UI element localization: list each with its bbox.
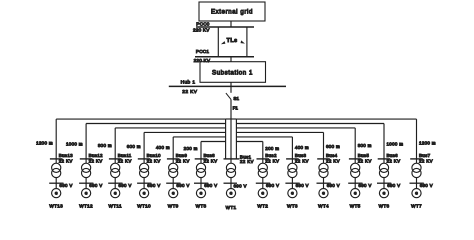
svg-text:690 V: 690 V [358, 183, 371, 188]
svg-text:Bus6: Bus6 [387, 153, 399, 158]
svg-text:WT5: WT5 [350, 204, 361, 209]
svg-text:22 KV: 22 KV [326, 159, 340, 164]
svg-text:WT4: WT4 [318, 204, 329, 209]
svg-text:S1: S1 [233, 96, 239, 101]
svg-text:690 V: 690 V [420, 183, 433, 188]
svg-text:690 V: 690 V [147, 183, 160, 188]
svg-text:WT2: WT2 [257, 204, 268, 209]
svg-text:690 V: 690 V [234, 184, 247, 189]
svg-text:Bus11: Bus11 [118, 153, 132, 158]
svg-text:690 V: 690 V [387, 183, 400, 188]
svg-text:22 KV: 22 KV [295, 159, 309, 164]
svg-text:22 KV: 22 KV [387, 159, 401, 164]
svg-text:G: G [322, 192, 325, 196]
svg-text:22 KV: 22 KV [204, 159, 218, 164]
svg-text:Hub 1: Hub 1 [181, 80, 196, 86]
svg-text:220 KV: 220 KV [193, 28, 210, 33]
svg-text:1200 m: 1200 m [419, 140, 436, 145]
svg-text:Bus13: Bus13 [59, 153, 73, 158]
svg-text:800 m: 800 m [358, 143, 372, 148]
svg-text:Bus4: Bus4 [326, 153, 338, 158]
svg-text:WT12: WT12 [79, 204, 93, 209]
svg-text:600 m: 600 m [127, 144, 141, 149]
svg-text:Bus2: Bus2 [265, 153, 277, 158]
svg-text:1200 m: 1200 m [36, 140, 53, 145]
svg-text:1000 m: 1000 m [66, 142, 83, 147]
svg-text:690 V: 690 V [176, 183, 189, 188]
svg-text:G: G [114, 192, 117, 196]
svg-text:22 KV: 22 KV [176, 159, 190, 164]
svg-text:WT7: WT7 [411, 204, 422, 209]
svg-text:WT9: WT9 [168, 204, 179, 209]
svg-text:WT8: WT8 [196, 204, 207, 209]
svg-text:TLs: TLs [227, 38, 238, 44]
svg-text:22 KV: 22 KV [59, 159, 73, 164]
svg-text:22 KV: 22 KV [419, 159, 433, 164]
svg-text:G: G [261, 192, 264, 196]
svg-text:WT6: WT6 [379, 204, 390, 209]
svg-text:600 m: 600 m [326, 144, 340, 149]
svg-text:22 KV: 22 KV [182, 89, 197, 95]
svg-text:G: G [85, 192, 88, 196]
svg-text:WT11: WT11 [109, 204, 122, 209]
svg-text:400 m: 400 m [295, 145, 309, 150]
svg-text:PCC1: PCC1 [196, 49, 209, 54]
svg-text:Bus5: Bus5 [358, 153, 370, 158]
svg-text:WT3: WT3 [287, 204, 298, 209]
svg-text:Bus3: Bus3 [295, 153, 307, 158]
svg-text:22 KV: 22 KV [358, 159, 372, 164]
svg-text:800 m: 800 m [98, 143, 112, 148]
svg-text:Bus7: Bus7 [419, 153, 431, 158]
svg-text:200 m: 200 m [184, 146, 198, 151]
svg-text:690 V: 690 V [118, 183, 131, 188]
svg-text:22 KV: 22 KV [240, 159, 254, 164]
svg-text:Bus10: Bus10 [147, 153, 161, 158]
svg-text:WT1: WT1 [226, 205, 237, 210]
svg-text:690 V: 690 V [59, 183, 72, 188]
svg-text:G: G [143, 192, 146, 196]
svg-text:PCC0: PCC0 [196, 21, 209, 26]
svg-text:WT10: WT10 [137, 204, 151, 209]
svg-text:G: G [172, 192, 175, 196]
svg-text:22 KV: 22 KV [265, 159, 279, 164]
svg-text:G: G [415, 192, 418, 196]
svg-text:200 m: 200 m [265, 146, 279, 151]
svg-text:Bus8: Bus8 [204, 153, 216, 158]
svg-text:1000 m: 1000 m [387, 142, 404, 147]
svg-text:22 KV: 22 KV [89, 159, 103, 164]
svg-text:G: G [291, 192, 294, 196]
svg-text:690 V: 690 V [204, 183, 217, 188]
svg-text:Bus9: Bus9 [176, 153, 188, 158]
svg-text:Substation 1: Substation 1 [212, 70, 253, 77]
svg-text:G: G [200, 192, 203, 196]
svg-text:690 V: 690 V [296, 183, 309, 188]
svg-text:22 KV: 22 KV [147, 159, 161, 164]
svg-text:External grid: External grid [211, 8, 253, 15]
svg-text:G: G [383, 192, 386, 196]
svg-text:690 V: 690 V [327, 183, 340, 188]
svg-text:WT13: WT13 [49, 204, 63, 209]
svg-text:690 V: 690 V [266, 183, 279, 188]
svg-text:Bus12: Bus12 [89, 153, 103, 158]
svg-text:G: G [354, 192, 357, 196]
svg-text:G: G [230, 192, 233, 196]
svg-text:400 m: 400 m [156, 145, 170, 150]
svg-text:22 KV: 22 KV [118, 159, 132, 164]
svg-text:G: G [55, 192, 58, 196]
svg-text:690 V: 690 V [89, 183, 102, 188]
svg-text:F1: F1 [233, 105, 239, 110]
